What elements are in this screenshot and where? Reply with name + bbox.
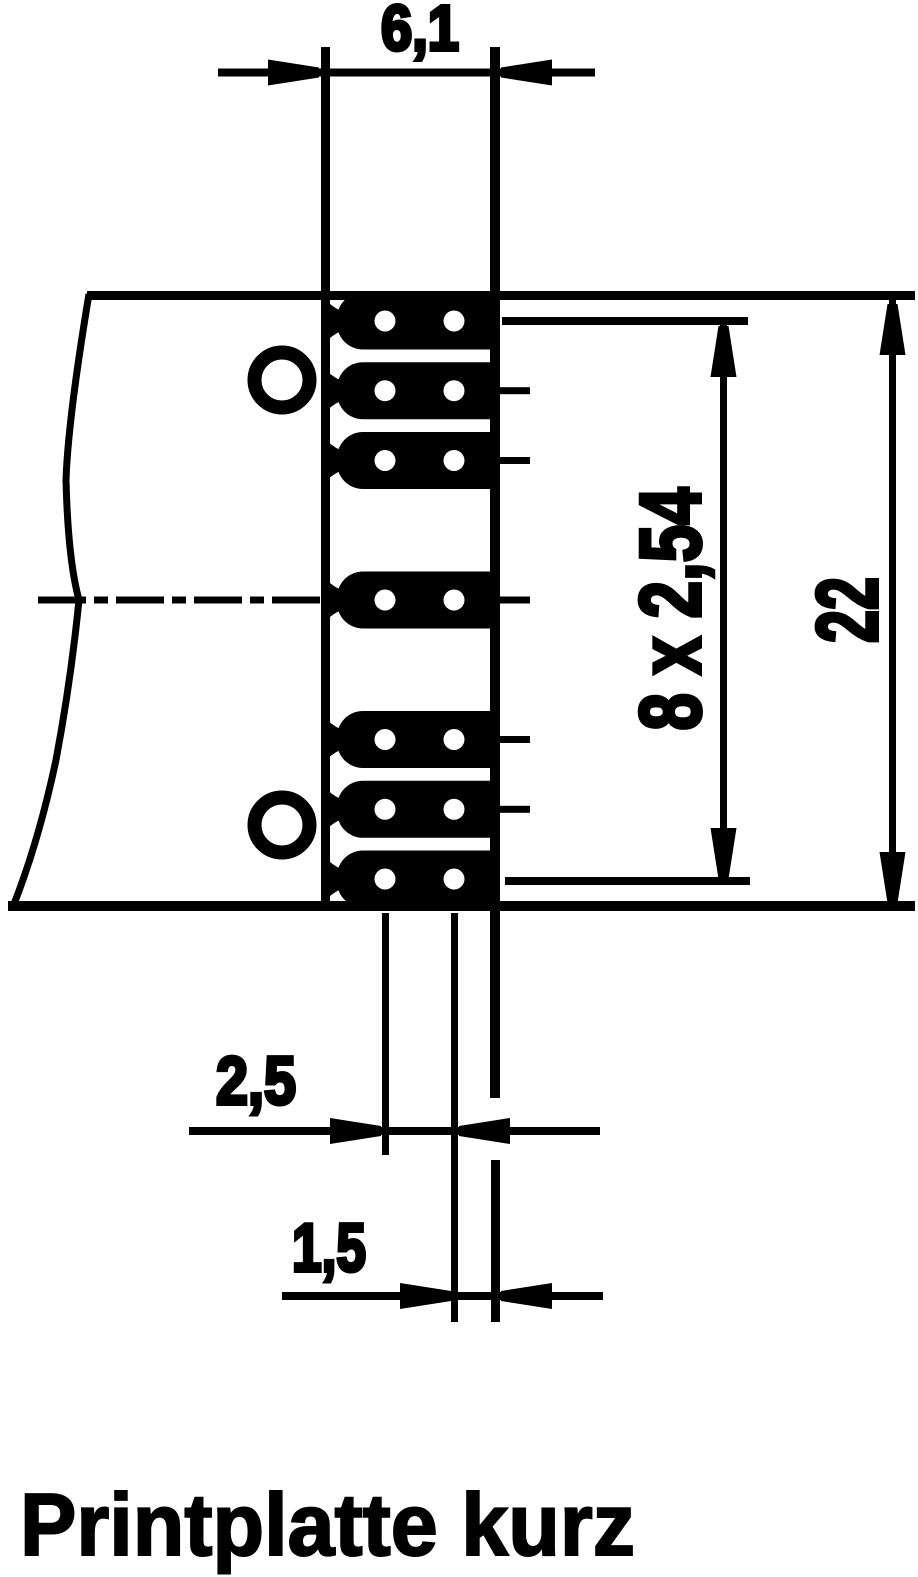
pad row 4 (middle) <box>330 572 500 629</box>
pad row 1 <box>330 293 500 350</box>
pin stub row 3 <box>500 457 530 464</box>
board bottom edge <box>8 901 915 911</box>
svg-text:Printplatte kurz: Printplatte kurz <box>20 1475 635 1574</box>
extension line hole column right (2,5 right / 1,5 left) <box>451 913 458 1322</box>
svg-text:2,5: 2,5 <box>216 1043 296 1119</box>
board centre line (dash-dot) <box>38 597 330 604</box>
svg-text:22: 22 <box>800 577 896 643</box>
pad row 5 <box>330 711 500 768</box>
pad row 2 <box>330 362 500 419</box>
dimension 1,5 line <box>282 1292 603 1300</box>
dimension 8x2,54 top arrowhead <box>711 326 737 377</box>
pin stub row 2 <box>500 387 530 394</box>
pad field left edge line / extension line 6,1 left <box>321 47 330 911</box>
svg-text:8 x 2,54: 8 x 2,54 <box>623 487 719 730</box>
mounting hole top <box>255 353 310 408</box>
dimension 6,1 right arrowhead <box>501 60 552 86</box>
pad field right edge extension below board (lower part) <box>491 1160 500 1322</box>
dimension 6,1 left arrowhead <box>268 60 319 86</box>
pin stub row 5 <box>500 736 530 743</box>
dimension 22 bottom arrowhead <box>880 852 906 903</box>
pin stub row 4 <box>500 597 530 604</box>
mounting hole bottom <box>255 798 310 853</box>
dimension 2,5 left arrowhead <box>330 1118 381 1144</box>
pin stub row 6 <box>500 806 530 813</box>
board break line (wavy left edge) <box>14 294 89 904</box>
dimension 22 top arrowhead <box>880 304 906 355</box>
dimension 6,1 line <box>218 69 595 77</box>
dimension 8x2,54 bottom extension line <box>505 877 750 885</box>
pad row 6 <box>330 781 500 838</box>
dimension 2,5 right arrowhead <box>459 1118 510 1144</box>
dimension 8x2,54 bottom arrowhead <box>711 828 737 879</box>
dimension 8x2,54 line <box>720 322 727 883</box>
svg-text:1,5: 1,5 <box>292 1210 366 1286</box>
dimension 1,5 right arrowhead <box>501 1283 552 1309</box>
svg-text:6,1: 6,1 <box>381 0 459 64</box>
dimension 8x2,54 top extension line <box>502 317 748 325</box>
dimension 1,5 left arrowhead <box>400 1283 451 1309</box>
pad row 3 <box>330 432 500 489</box>
dimension 22 line <box>889 300 896 907</box>
dimension 2,5 line <box>189 1127 600 1135</box>
board top edge <box>87 291 915 300</box>
pad field right edge line / extension line 6,1 right (upper part) <box>490 47 500 1098</box>
extension line hole column left (2,5 left) <box>382 913 389 1155</box>
pad row 7 <box>330 851 500 908</box>
